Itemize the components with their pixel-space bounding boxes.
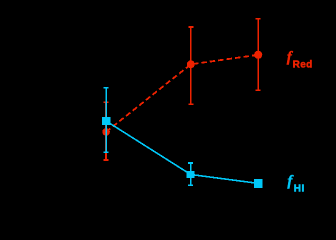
svg-text:Red: Red (293, 60, 313, 71)
svg-text:HI: HI (294, 184, 305, 195)
